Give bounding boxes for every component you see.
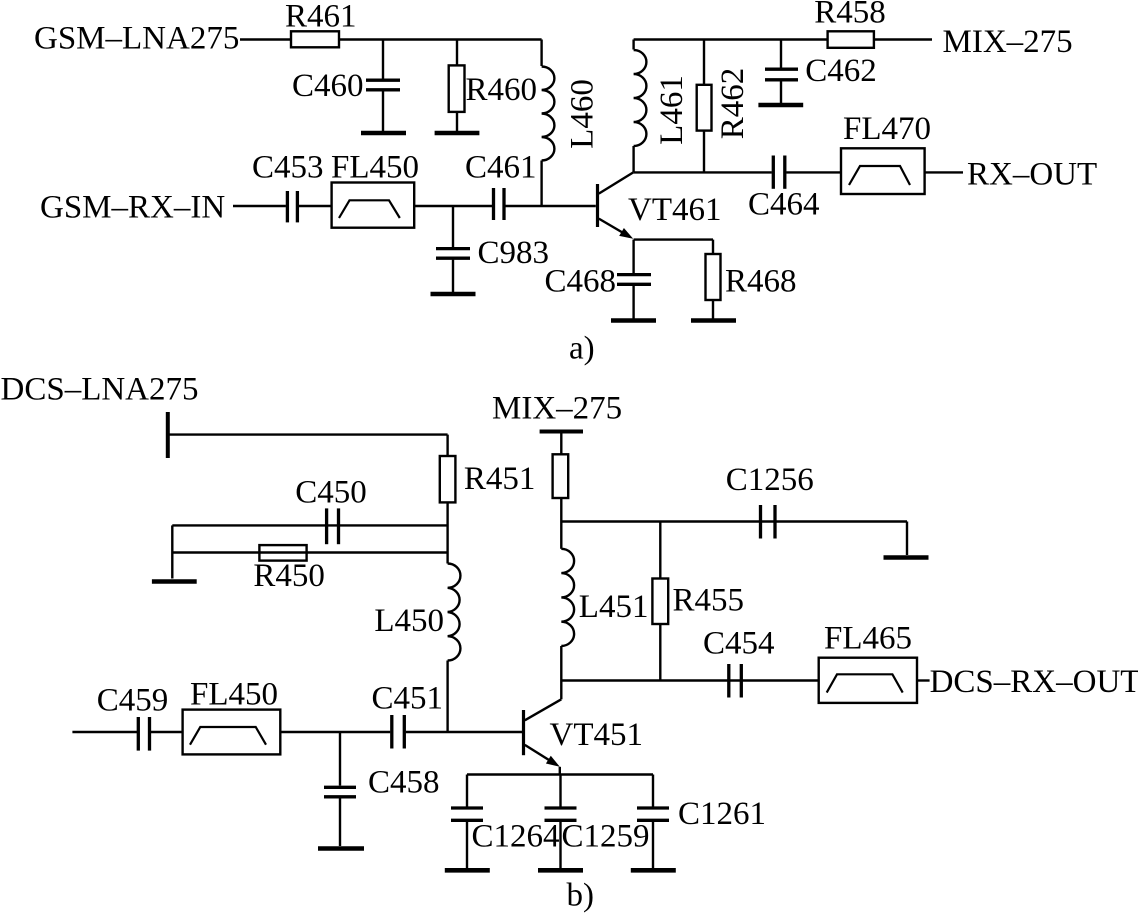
wire bbox=[151, 731, 183, 733]
wire bbox=[240, 38, 291, 40]
wire bbox=[72, 731, 137, 733]
resistor R462 bbox=[703, 40, 705, 85]
resistor R455 bbox=[659, 522, 661, 579]
wire bbox=[561, 520, 907, 522]
capacitor C464 bbox=[772, 156, 775, 189]
svg-text:C451: C451 bbox=[372, 681, 444, 717]
capacitor C458 bbox=[339, 732, 341, 786]
svg-text:b): b) bbox=[567, 878, 595, 914]
ground bbox=[538, 868, 583, 873]
filter FL465 bbox=[819, 658, 917, 703]
svg-text:R458: R458 bbox=[814, 0, 886, 30]
resistor R461 bbox=[291, 31, 339, 47]
wire bbox=[925, 171, 963, 173]
svg-text:C462: C462 bbox=[805, 53, 877, 89]
wire bbox=[299, 205, 332, 207]
wire bbox=[467, 773, 653, 775]
ground bbox=[631, 868, 676, 873]
svg-text:FL470: FL470 bbox=[843, 111, 931, 147]
ground bbox=[611, 318, 656, 323]
wire bbox=[632, 240, 634, 273]
svg-text:DCS–RX–OUT: DCS–RX–OUT bbox=[930, 664, 1138, 700]
wire bbox=[414, 205, 492, 207]
wire bbox=[506, 205, 596, 207]
wire bbox=[560, 498, 562, 522]
ground bbox=[691, 318, 736, 323]
svg-text:VT461: VT461 bbox=[628, 192, 722, 228]
wire bbox=[634, 171, 772, 173]
wire bbox=[172, 551, 447, 553]
svg-text:MIX–275: MIX–275 bbox=[492, 390, 622, 426]
wire bbox=[559, 767, 561, 775]
ground bbox=[152, 579, 197, 584]
ground bbox=[435, 131, 480, 136]
resistor R451 bbox=[446, 435, 448, 456]
wire bbox=[406, 731, 523, 733]
transistor VT451 bbox=[522, 710, 525, 755]
capacitor C450 bbox=[325, 508, 328, 544]
wire bbox=[560, 432, 562, 455]
svg-text:C1261: C1261 bbox=[678, 796, 766, 832]
wire bbox=[172, 524, 447, 526]
svg-text:C453: C453 bbox=[252, 150, 324, 186]
svg-text:RX–OUT: RX–OUT bbox=[967, 157, 1097, 193]
inductor L450 bbox=[448, 564, 461, 661]
ground bbox=[758, 103, 803, 108]
wire bbox=[233, 205, 286, 207]
capacitor C451 bbox=[390, 715, 393, 749]
svg-text:C450: C450 bbox=[295, 475, 367, 511]
capacitor C461 bbox=[492, 188, 495, 220]
svg-text:R462: R462 bbox=[715, 68, 751, 140]
svg-text:C1264: C1264 bbox=[472, 819, 560, 855]
filter FL470 bbox=[841, 148, 925, 194]
svg-text:R461: R461 bbox=[285, 0, 357, 35]
capacitor C1261 bbox=[652, 775, 654, 807]
svg-text:C464: C464 bbox=[748, 187, 820, 223]
terminal bar bbox=[540, 430, 583, 434]
terminal bar bbox=[166, 412, 170, 458]
svg-text:a): a) bbox=[569, 331, 595, 367]
capacitor C453 bbox=[286, 191, 289, 222]
wire bbox=[634, 38, 828, 40]
resistor R458 bbox=[828, 31, 874, 48]
capacitor C1256 bbox=[759, 505, 762, 539]
transistor VT461 bbox=[596, 184, 599, 227]
svg-text:C454: C454 bbox=[703, 626, 775, 662]
wire bbox=[560, 681, 562, 700]
svg-text:C459: C459 bbox=[97, 682, 169, 718]
capacitor C468 bbox=[617, 273, 651, 276]
wire bbox=[906, 522, 908, 556]
capacitor C459 bbox=[137, 717, 140, 751]
svg-text:VT451: VT451 bbox=[550, 717, 644, 753]
filter FL450 bbox=[332, 183, 415, 228]
svg-text:GSM–RX–IN: GSM–RX–IN bbox=[40, 190, 225, 226]
svg-text:FL465: FL465 bbox=[824, 621, 912, 657]
wire bbox=[917, 679, 930, 681]
ground bbox=[431, 292, 476, 297]
resistor bbox=[553, 454, 569, 498]
svg-text:C460: C460 bbox=[292, 68, 364, 104]
capacitor C983 bbox=[452, 206, 454, 247]
capacitor C454 bbox=[727, 664, 730, 698]
filter FL450 bbox=[183, 710, 281, 755]
resistor R468 bbox=[712, 240, 714, 254]
svg-text:R468: R468 bbox=[725, 264, 797, 300]
svg-text:GSM–LNA275: GSM–LNA275 bbox=[34, 21, 239, 57]
inductor L451 bbox=[560, 522, 562, 549]
svg-text:MIX–275: MIX–275 bbox=[943, 24, 1073, 60]
resistor R460 bbox=[456, 40, 458, 66]
capacitor C462 bbox=[780, 40, 782, 69]
wire bbox=[171, 525, 173, 578]
wire bbox=[786, 171, 841, 173]
inductor L461 bbox=[632, 40, 634, 50]
wire bbox=[168, 433, 448, 435]
resistor R450 bbox=[259, 545, 306, 561]
svg-text:L451: L451 bbox=[579, 589, 649, 625]
svg-text:C1259: C1259 bbox=[562, 819, 650, 855]
svg-text:C468: C468 bbox=[544, 264, 616, 300]
wire bbox=[339, 38, 542, 40]
svg-text:C1256: C1256 bbox=[726, 462, 814, 498]
svg-text:R451: R451 bbox=[464, 461, 536, 497]
wire bbox=[561, 679, 818, 681]
svg-text:R455: R455 bbox=[673, 583, 745, 619]
wire bbox=[634, 238, 713, 240]
wire bbox=[874, 38, 932, 40]
svg-text:FL450: FL450 bbox=[331, 150, 419, 186]
wire bbox=[280, 731, 390, 733]
svg-text:L450: L450 bbox=[374, 603, 444, 639]
capacitor C1259 bbox=[559, 775, 561, 807]
ground bbox=[884, 555, 929, 560]
svg-text:FL450: FL450 bbox=[190, 677, 278, 713]
ground bbox=[318, 846, 364, 851]
ground bbox=[445, 868, 490, 873]
capacitor C1264 bbox=[466, 775, 468, 807]
svg-text:L460: L460 bbox=[565, 79, 601, 149]
ground bbox=[361, 131, 406, 136]
svg-text:R460: R460 bbox=[466, 72, 538, 108]
inductor L460 bbox=[540, 40, 542, 67]
svg-text:DCS–LNA275: DCS–LNA275 bbox=[1, 372, 199, 408]
capacitor C460 bbox=[382, 40, 384, 80]
svg-text:C461: C461 bbox=[465, 150, 537, 186]
svg-text:L461: L461 bbox=[654, 75, 690, 145]
svg-text:C458: C458 bbox=[368, 764, 440, 800]
svg-text:C983: C983 bbox=[478, 235, 550, 271]
svg-text:R450: R450 bbox=[253, 558, 325, 594]
